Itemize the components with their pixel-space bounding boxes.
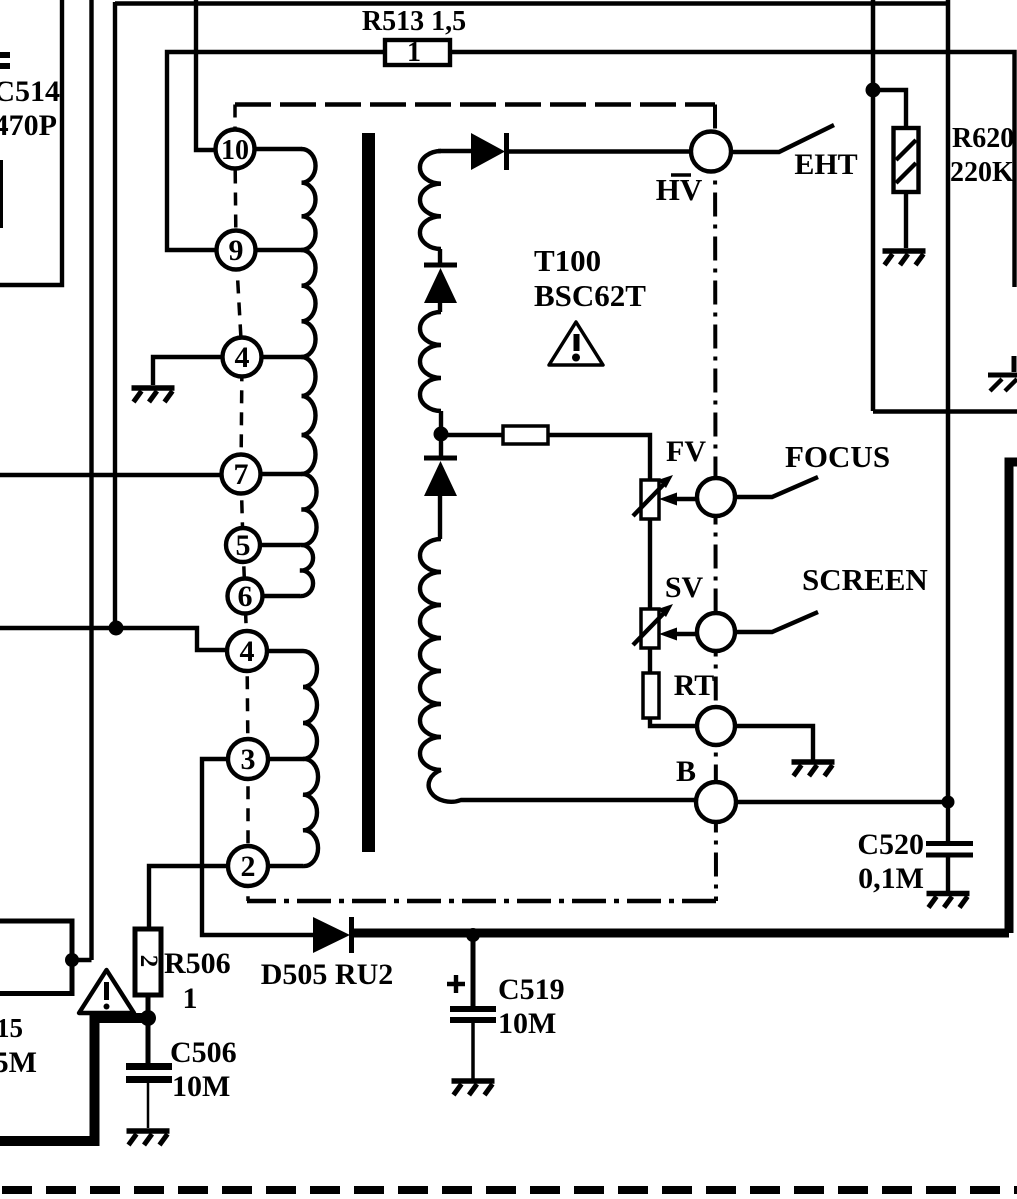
wire tap pin 10 — [252, 147, 302, 151]
partial component box bottom-left — [0, 921, 72, 994]
thick supply bus — [352, 462, 1017, 933]
svg-text:C520: C520 — [857, 828, 924, 861]
svg-text:1: 1 — [183, 982, 198, 1015]
pin 7 circle — [222, 455, 261, 494]
pin 2 circle — [228, 846, 268, 886]
polarity plus C519 — [447, 975, 465, 993]
wire resistor to FV pot — [548, 435, 650, 480]
resistor focus feed — [503, 426, 548, 444]
svg-text:SV: SV — [665, 571, 704, 604]
transformer boundary bottom dashed — [247, 899, 716, 904]
svg-text:R506: R506 — [164, 947, 231, 980]
pin 5 circle — [226, 528, 260, 562]
terminal FV circle — [697, 478, 735, 516]
diode D505 — [313, 917, 350, 953]
wire horizontal y411 — [873, 409, 1017, 414]
secondary winding mid section — [420, 312, 441, 411]
svg-text:HV: HV — [656, 172, 703, 207]
terminal HV circle — [691, 132, 731, 172]
svg-text:9: 9 — [229, 234, 244, 267]
node focus tap — [434, 427, 449, 442]
wire pin2 to R506 — [149, 866, 228, 928]
switch SCREEN — [735, 612, 818, 632]
svg-text:D505 RU2: D505 RU2 — [261, 958, 394, 991]
wire vertical x92 — [89, 0, 93, 960]
transformer core bar — [362, 133, 375, 852]
primary winding pins 7-5 — [302, 474, 317, 545]
pin 9 circle — [217, 231, 256, 270]
wire tap pin 5 — [260, 543, 300, 547]
diode HV rectifier top — [471, 133, 505, 170]
wire tap pin 2 — [266, 864, 303, 868]
resistor R620 body — [894, 128, 919, 192]
wire to pin 4 and ground — [153, 357, 222, 385]
svg-text:C514: C514 — [0, 75, 60, 108]
primary winding pins 4b-3 — [303, 651, 317, 759]
wire C506 to ground — [147, 1083, 150, 1128]
node B line junction — [942, 796, 955, 809]
wire to C519 — [471, 935, 476, 1006]
svg-text:2: 2 — [241, 850, 256, 883]
svg-text:R513 1,5: R513 1,5 — [362, 6, 466, 37]
page border dashed bottom — [2, 1186, 1017, 1194]
diode secondary lower — [439, 434, 443, 457]
svg-text:BSC62T: BSC62T — [534, 278, 646, 313]
svg-text:T100: T100 — [534, 243, 601, 278]
wire RT terminal to ground — [735, 726, 813, 760]
wire vertical x873 — [871, 0, 876, 411]
svg-text:6: 6 — [238, 580, 253, 613]
diode secondary mid — [424, 263, 457, 268]
primary winding pins 9-4 — [302, 250, 316, 357]
wire secondary to diode — [438, 149, 471, 153]
wire tap to resistor — [441, 433, 503, 437]
resistor R513 body — [385, 40, 450, 65]
svg-text:B: B — [676, 755, 696, 788]
capacitor C520 plates — [926, 841, 973, 858]
wire secondary bottom to B terminal — [429, 770, 696, 802]
potentiometer SV body — [641, 609, 659, 648]
wire B terminal right — [736, 800, 948, 804]
wire tap pin 6 — [262, 594, 300, 598]
primary winding pins 5-6 — [300, 545, 313, 596]
svg-text:10M: 10M — [498, 1007, 556, 1040]
wire coil to diode2 — [438, 249, 442, 266]
wiper SV arrow — [672, 632, 696, 637]
wire tap pin 3 — [266, 757, 303, 761]
svg-text:C519: C519 — [498, 973, 565, 1006]
pin 10 circle — [216, 130, 255, 169]
secondary winding top section — [420, 151, 441, 249]
switch EHT — [731, 125, 834, 152]
capacitor plates C514 (clipped) — [0, 52, 10, 69]
svg-text:RT: RT — [674, 669, 715, 702]
svg-text:1: 1 — [407, 37, 421, 68]
svg-text:5M: 5M — [0, 1046, 37, 1079]
pin 3 circle — [228, 739, 268, 779]
wire RT to terminal — [650, 718, 697, 726]
transformer primary axis dashed — [235, 105, 248, 902]
wire C519 to ground — [471, 1023, 475, 1079]
primary winding pins 10-9 — [302, 149, 316, 250]
svg-text:4: 4 — [235, 341, 250, 374]
warning triangle bottom — [79, 970, 134, 1013]
capacitor C506 plates — [126, 1063, 172, 1083]
thick bus bottom left — [0, 1018, 148, 1141]
resistor RT body — [643, 673, 659, 718]
svg-text:5: 5 — [236, 529, 251, 562]
wire SV pot to RT — [648, 648, 652, 673]
svg-text:2: 2 — [135, 955, 162, 968]
wire tap pin 4b — [265, 649, 303, 653]
node R506/C506 — [140, 1010, 156, 1026]
ground R620 — [883, 248, 926, 254]
svg-text:4: 4 — [240, 635, 255, 668]
wiper FV arrow — [672, 497, 696, 502]
wire from R513 to pin 9 — [167, 52, 385, 250]
transformer boundary right dashed — [715, 105, 716, 902]
primary winding pins 3-2 — [303, 759, 318, 866]
svg-text:FOCUS: FOCUS — [785, 439, 890, 474]
node C519 tap — [466, 928, 480, 942]
svg-text:R620: R620 — [952, 123, 1014, 154]
wire vertical x948 — [946, 0, 951, 802]
resistor R506 body — [135, 929, 161, 995]
pin 6 circle — [228, 579, 263, 614]
wire FV pot to SV pot — [648, 519, 652, 609]
wire R513 right side — [450, 52, 1015, 287]
terminal RT circle — [697, 707, 735, 745]
svg-text:7: 7 — [234, 458, 249, 491]
warning triangle T100 — [549, 322, 603, 365]
wire stub left edge — [0, 160, 3, 228]
ground pin4 — [132, 385, 175, 391]
transformer T100 boundary top dashed — [235, 102, 715, 107]
node junction x116 — [109, 621, 124, 636]
wire tap pin 4 — [260, 355, 302, 359]
ground C519 — [452, 1078, 495, 1084]
svg-text:EHT: EHT — [794, 148, 857, 181]
terminal B circle — [696, 782, 736, 822]
wire R620 to ground — [904, 192, 908, 248]
svg-text:3: 3 — [241, 743, 256, 776]
wire pin3 to D505 — [202, 759, 313, 935]
ground RT — [792, 759, 835, 765]
svg-text:C506: C506 — [170, 1036, 237, 1069]
secondary winding bottom section — [420, 539, 441, 770]
partial component box top-left — [0, 0, 62, 285]
wire tap pin 9 — [255, 248, 302, 252]
svg-text:470P: 470P — [0, 109, 57, 142]
wire top horizontal — [115, 1, 949, 5]
terminal SV circle — [697, 613, 735, 651]
svg-text:FV: FV — [666, 435, 706, 468]
potentiometer FV arrow — [633, 482, 666, 516]
switch FOCUS — [735, 477, 818, 497]
node R620 tap — [866, 83, 881, 98]
ground right edge — [988, 356, 1017, 375]
capacitor C519 plates — [450, 1006, 496, 1023]
wire to pin 7 — [0, 473, 222, 477]
primary winding pins 4-7 — [302, 357, 316, 474]
wire C506 — [146, 1019, 151, 1064]
svg-text:0,1M: 0,1M — [858, 862, 924, 895]
svg-text:15: 15 — [0, 1013, 23, 1043]
wire C520 to ground — [946, 857, 950, 891]
pin 4 circle — [223, 338, 262, 377]
pin 4 circle — [227, 631, 267, 671]
wire to focus tap node — [439, 411, 443, 434]
wire R506 to node — [146, 993, 151, 1019]
svg-text:10M: 10M — [172, 1070, 230, 1103]
wire diode to HV terminal — [506, 149, 691, 153]
wire vertical x196 to pin 10 — [196, 0, 215, 150]
wire to pin 4b — [0, 628, 227, 650]
wire box to vertical — [72, 958, 92, 962]
wire to C520 — [946, 802, 950, 841]
potentiometer FV body — [641, 480, 659, 519]
ground C506 — [127, 1128, 170, 1134]
svg-text:10: 10 — [221, 135, 249, 166]
wire tap pin 7 — [259, 472, 302, 476]
wire vertical x115 — [113, 2, 117, 628]
svg-text:SCREEN: SCREEN — [802, 562, 928, 597]
node box edge — [65, 953, 79, 967]
potentiometer SV arrow — [633, 611, 666, 645]
svg-text:220K: 220K — [950, 157, 1014, 188]
wire to R620 — [873, 90, 906, 129]
ground C520 — [927, 891, 970, 897]
